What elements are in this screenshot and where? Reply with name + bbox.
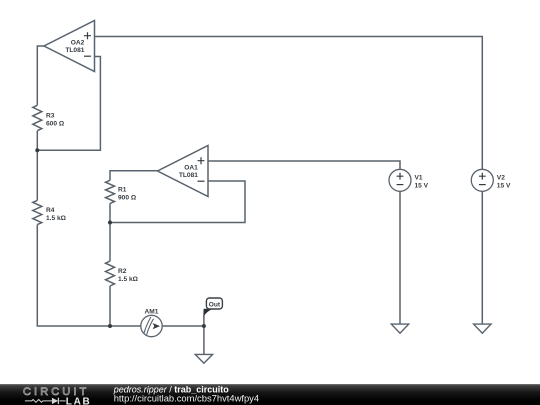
svg-text:600 Ω: 600 Ω [46, 121, 65, 128]
wire OA1 + input to V1 top [208, 161, 400, 169]
wire node Out up to Out flag [203, 316, 205, 327]
svg-text:LAB: LAB [66, 396, 92, 405]
svg-text:15 V: 15 V [415, 183, 429, 190]
wire V2 bottom to ground [481, 191, 483, 324]
wire OA2 - input feedback to node A [37, 57, 100, 151]
svg-text:15 V: 15 V [497, 183, 511, 190]
footer bar [0, 384, 540, 405]
wire node A to R4 top [36, 150, 38, 200]
wire R2 bottom to node C [109, 286, 111, 326]
resistor R3 [33, 105, 65, 130]
wire V1 bottom to ground [399, 191, 401, 324]
node Out junction [202, 324, 206, 328]
wire R3 bottom to node A [36, 131, 38, 151]
ground for V1 [391, 324, 408, 333]
CircuitLab logo [23, 386, 91, 405]
wire R4 bottom to node C along bottom rail [37, 225, 110, 326]
node B junction [108, 221, 112, 225]
svg-text:V1: V1 [415, 175, 423, 182]
resistor R1 [106, 180, 137, 203]
node A junction [35, 148, 39, 152]
ground for node Out [195, 354, 212, 363]
wire node B to R2 top [109, 223, 111, 262]
svg-text:OA2: OA2 [71, 40, 85, 47]
svg-text:OA1: OA1 [184, 165, 198, 172]
svg-text:AM1: AM1 [145, 308, 159, 315]
svg-text:V2: V2 [497, 175, 505, 182]
wire R1 bottom to node B [109, 203, 111, 222]
svg-text:1.5 kΩ: 1.5 kΩ [46, 215, 67, 222]
svg-text:TL081: TL081 [179, 172, 198, 179]
wire OA1 - input feedback to node B [110, 181, 245, 223]
svg-text:R3: R3 [46, 113, 55, 120]
wire OA2 + input to V2 top [95, 37, 483, 170]
wire node Out down to ground [203, 326, 205, 354]
voltage source V2 [471, 169, 511, 191]
node C junction [108, 324, 112, 328]
svg-text:R4: R4 [46, 207, 55, 214]
resistor R4 [33, 200, 67, 224]
node Out flag [203, 298, 222, 317]
svg-text:Out: Out [209, 301, 221, 308]
op-amp OA1 [158, 146, 209, 197]
wire OA2 output to R3 [37, 46, 44, 105]
voltage source V1 [389, 169, 429, 191]
svg-text:http://circuitlab.com/cbs7hvt4: http://circuitlab.com/cbs7hvt4wfpy4 [114, 393, 259, 404]
ground for V2 [474, 324, 491, 333]
op-amp OA2 [44, 21, 95, 72]
svg-text:R2: R2 [118, 268, 127, 275]
svg-text:TL081: TL081 [65, 47, 84, 54]
ammeter AM1 [141, 308, 162, 336]
wire OA1 output to R1 top [110, 171, 158, 181]
svg-text:R1: R1 [118, 186, 127, 193]
wire AM1 to node Out [162, 325, 204, 327]
resistor R2 [106, 261, 139, 286]
svg-text:900 Ω: 900 Ω [118, 194, 137, 201]
wire node C to AM1 [110, 325, 141, 327]
svg-text:1.5 kΩ: 1.5 kΩ [118, 276, 139, 283]
